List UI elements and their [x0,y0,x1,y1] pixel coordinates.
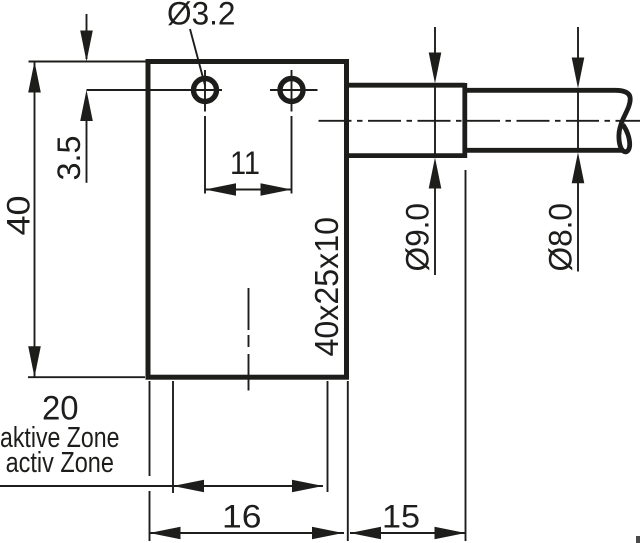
dimension 3.5 stem top with down arrow [86,14,88,59]
hole left Ø3.2 [194,79,217,102]
connector Ø9 section [345,83,465,158]
extension line body right edge down [347,381,349,541]
svg-text:16: 16 [222,499,262,535]
svg-text:3.5: 3.5 [51,136,87,181]
dimension line 15 [350,532,466,534]
svg-text:11: 11 [230,145,260,181]
extension line body left edge down (broken at 20-line) [149,381,151,476]
bottom extension line for 40 [28,376,145,378]
cable Ø8 top edge with end loop [465,90,630,151]
dimension line 11 [205,189,292,191]
cable centerline dash-dot [319,120,640,122]
hole left vertical centerline [204,70,206,112]
top extension line [29,61,149,63]
dimension line 40 [34,62,36,378]
dimension 3.5 stem bottom with up arrow [80,90,93,121]
dimension line 16 [150,532,345,534]
svg-text:Ø8.0: Ø8.0 [543,203,579,272]
active zone right extension [327,381,329,492]
hole right Ø3.2 [280,79,303,102]
dimension Ø8 stems and arrows [577,27,579,61]
sensor body outline 40x25 front view [148,62,347,378]
hole right vertical centerline [291,70,293,112]
svg-text:40x25x10: 40x25x10 [308,217,345,357]
extension line right end of Ø9 down to 15 dim [465,170,467,541]
svg-text:activ Zone: activ Zone [6,447,114,479]
active zone left extension [172,381,174,493]
body vertical centerline dash-dot [248,288,250,391]
svg-text:Ø3.2: Ø3.2 [167,0,236,32]
svg-text:Ø9.0: Ø9.0 [400,203,436,272]
cable Ø8 bottom edge [465,148,623,153]
svg-text:40: 40 [1,196,37,236]
hole centerline horizontal [87,89,223,91]
leader line for hole label [190,29,205,86]
corner artifact bottom right [636,536,640,543]
dimension line 20 active zone with leader to text [0,485,323,487]
dimension Ø9 stems and arrows [434,27,436,57]
svg-text:15: 15 [382,499,420,535]
